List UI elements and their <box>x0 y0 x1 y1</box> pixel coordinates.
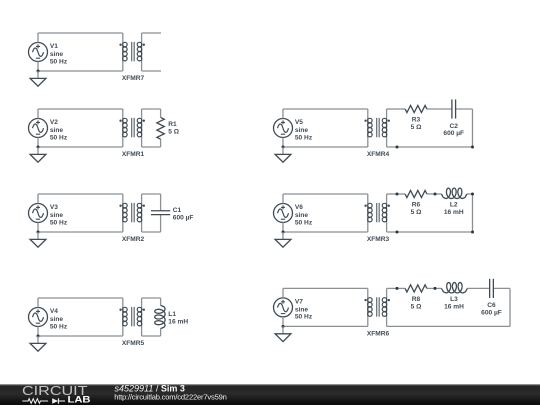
transformer XFMR4 <box>364 109 390 147</box>
svg-text:V2: V2 <box>50 119 58 126</box>
ground <box>275 232 291 247</box>
svg-text:50 Hz: 50 Hz <box>50 323 68 330</box>
wire top circuit L2 <box>38 108 123 110</box>
wire source top stub <box>282 288 284 298</box>
capacitor C1 <box>151 194 170 232</box>
wire source bottom stub <box>282 138 284 148</box>
wire load right vertical <box>472 194 474 232</box>
logo waveform <box>22 399 48 404</box>
wire load right vertical <box>472 109 474 147</box>
junction node (38.0,147.0) <box>37 146 40 149</box>
svg-text:V7: V7 <box>295 298 303 305</box>
svg-text:50 Hz: 50 Hz <box>295 314 313 321</box>
svg-text:V1: V1 <box>50 43 58 50</box>
svg-text:sine: sine <box>50 51 64 58</box>
svg-text:C2: C2 <box>450 123 459 130</box>
wire source bottom stub <box>282 317 284 327</box>
wire secondary bottom <box>142 146 161 148</box>
wire secondary bottom <box>142 335 161 337</box>
svg-text:XFMR5: XFMR5 <box>122 340 145 347</box>
junction node (397.0,288.4) <box>396 287 399 290</box>
wire source top stub <box>37 109 39 119</box>
svg-text:16 mH: 16 mH <box>168 318 188 325</box>
voltage source V1 <box>29 43 48 62</box>
wire bottom circuit R6 <box>283 231 368 233</box>
svg-text:sine: sine <box>295 307 309 314</box>
voltage source V5 <box>274 119 293 138</box>
voltage source V3 <box>29 204 48 223</box>
wire secondary top stub <box>142 32 161 34</box>
junction node (472.5,147.0) <box>471 146 474 149</box>
svg-text:XFMR2: XFMR2 <box>122 236 145 243</box>
transformer XFMR3 <box>364 194 390 232</box>
wire source bottom stub <box>282 223 284 233</box>
wire secondary bottom stub <box>142 70 161 72</box>
junction node (472.5,194.0) <box>471 193 474 196</box>
junction node (397.0,232.0) <box>396 231 399 234</box>
junction node (283.0,147.0) <box>282 146 285 149</box>
wire load right vertical <box>509 288 511 326</box>
svg-text:R8: R8 <box>412 296 421 303</box>
wire segment <box>387 193 397 195</box>
svg-text:50 Hz: 50 Hz <box>295 219 313 226</box>
resistor R6 <box>397 190 435 197</box>
inductor L2 <box>435 188 473 198</box>
svg-text:C1: C1 <box>173 207 182 214</box>
capacitor C2 <box>435 99 473 118</box>
svg-text:R1: R1 <box>168 121 177 128</box>
svg-text:5 Ω: 5 Ω <box>411 303 422 310</box>
transformer XFMR1 <box>119 109 145 147</box>
svg-text:sine: sine <box>50 127 64 134</box>
junction node (435.0,288.4) <box>434 287 437 290</box>
voltage source V2 <box>29 119 48 138</box>
junction node (472.5,232.0) <box>471 231 474 234</box>
ground <box>275 147 291 162</box>
wire secondary bottom <box>387 231 473 233</box>
resistor R8 <box>397 285 435 292</box>
svg-text:5 Ω: 5 Ω <box>411 209 422 216</box>
wire top circuit L4 <box>38 297 123 299</box>
svg-text:50 Hz: 50 Hz <box>50 58 68 65</box>
junction node (283.0,232.0) <box>282 231 285 234</box>
junction node (397.0,147.0) <box>396 146 399 149</box>
svg-text:16 mH: 16 mH <box>444 303 464 310</box>
resistor R3 <box>397 105 435 112</box>
wire top circuit L3 <box>38 193 123 195</box>
svg-text:50 Hz: 50 Hz <box>50 219 68 226</box>
junction node (38.0,71.0) <box>37 70 40 73</box>
wire top circuit R7 <box>283 287 368 289</box>
junction node (397.0,194.0) <box>396 193 399 196</box>
wire segment <box>387 108 397 110</box>
wire secondary bottom <box>387 325 510 327</box>
wire secondary top <box>142 193 161 195</box>
inductor L1 <box>155 298 165 336</box>
svg-text:sine: sine <box>50 316 64 323</box>
resistor R1 <box>157 109 164 147</box>
ground <box>275 326 291 341</box>
junction node (38.0,232.0) <box>37 231 40 234</box>
svg-text:XFMR6: XFMR6 <box>367 330 390 337</box>
svg-text:L3: L3 <box>450 296 458 303</box>
svg-text:5 Ω: 5 Ω <box>411 124 422 131</box>
svg-text:V3: V3 <box>50 204 58 211</box>
wire source top stub <box>37 298 39 308</box>
wire secondary top <box>142 108 161 110</box>
svg-text:600 µF: 600 µF <box>173 215 194 222</box>
svg-text:R6: R6 <box>412 202 421 209</box>
wire secondary top <box>142 297 161 299</box>
transformer XFMR6 <box>364 288 390 326</box>
voltage source V4 <box>29 308 48 327</box>
svg-text:sine: sine <box>295 127 309 134</box>
transformer XFMR7 <box>119 33 145 71</box>
svg-text:V6: V6 <box>295 204 303 211</box>
svg-text:LAB: LAB <box>68 395 92 405</box>
wire bottom circuit R7 <box>283 325 368 327</box>
svg-text:600 µF: 600 µF <box>443 130 464 137</box>
junction node (435.0,194.0) <box>434 193 437 196</box>
ground <box>30 71 46 86</box>
wire source top stub <box>37 33 39 43</box>
capacitor C6 <box>473 279 510 298</box>
transformer XFMR2 <box>119 194 145 232</box>
junction node (283.0,326.4) <box>282 325 285 328</box>
svg-text:XFMR4: XFMR4 <box>367 151 390 158</box>
svg-text:V5: V5 <box>295 119 303 126</box>
wire source bottom stub <box>37 327 39 337</box>
wire source top stub <box>282 194 284 204</box>
svg-text:V4: V4 <box>50 308 58 315</box>
svg-text:http://circuitlab.com/cd222er7: http://circuitlab.com/cd222er7vs59n <box>114 392 226 401</box>
svg-text:16 mH: 16 mH <box>444 209 464 216</box>
wire source top stub <box>37 194 39 204</box>
inductor L3 <box>435 283 473 293</box>
wire top circuit L1 <box>38 32 123 34</box>
svg-text:50 Hz: 50 Hz <box>50 134 68 141</box>
svg-text:50 Hz: 50 Hz <box>295 134 313 141</box>
wire bottom circuit L3 <box>38 231 123 233</box>
wire segment <box>387 287 397 289</box>
wire source bottom stub <box>37 138 39 148</box>
svg-text:L2: L2 <box>450 202 458 209</box>
wire top circuit R5 <box>283 108 368 110</box>
ground <box>30 336 46 351</box>
svg-text:XFMR7: XFMR7 <box>122 75 145 82</box>
ground <box>30 147 46 162</box>
junction node (38.0,336.0) <box>37 335 40 338</box>
wire secondary bottom <box>142 231 161 233</box>
svg-text:sine: sine <box>295 212 309 219</box>
logo diode <box>52 398 58 403</box>
svg-text:R3: R3 <box>412 117 421 124</box>
svg-text:XFMR3: XFMR3 <box>367 236 390 243</box>
svg-text:C6: C6 <box>487 302 496 309</box>
wire source bottom stub <box>37 62 39 72</box>
wire secondary bottom <box>387 146 473 148</box>
voltage source V7 <box>274 298 293 317</box>
voltage source V6 <box>274 204 293 223</box>
wire top circuit R6 <box>283 193 368 195</box>
wire source top stub <box>282 109 284 119</box>
svg-text:5 Ω: 5 Ω <box>168 128 179 135</box>
svg-text:600 µF: 600 µF <box>481 309 502 316</box>
wire bottom circuit L4 <box>38 335 123 337</box>
transformer XFMR5 <box>119 298 145 336</box>
svg-text:sine: sine <box>50 212 64 219</box>
wire bottom circuit L2 <box>38 146 123 148</box>
wire bottom circuit R5 <box>283 146 368 148</box>
wire bottom circuit L1 <box>38 70 123 72</box>
ground <box>30 232 46 247</box>
wire source bottom stub <box>37 223 39 233</box>
svg-text:L1: L1 <box>168 311 176 318</box>
svg-text:XFMR1: XFMR1 <box>122 151 145 158</box>
